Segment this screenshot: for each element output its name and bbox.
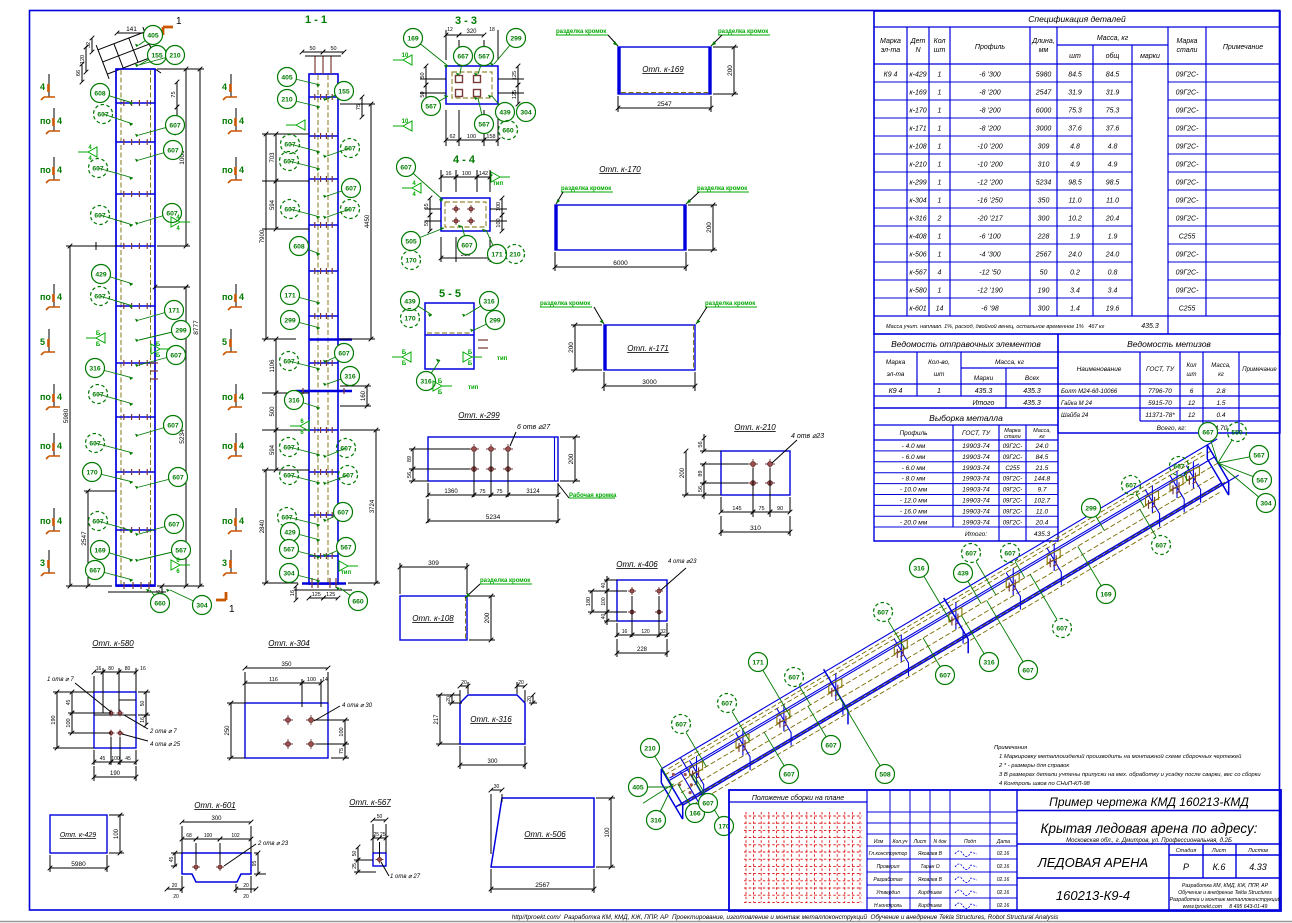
svg-text:Московская обл., г. Дмитров, у: Московская обл., г. Дмитров, ул. Професс… <box>1066 838 1232 844</box>
svg-text:429: 429 <box>284 529 296 536</box>
svg-text:607: 607 <box>675 721 687 728</box>
callout 439 <box>954 564 973 583</box>
svg-text:Выборка металла: Выборка металла <box>929 413 1003 423</box>
callout 405 <box>287 77 320 85</box>
svg-text:3000: 3000 <box>1036 126 1052 133</box>
svg-text:19903-74: 19903-74 <box>962 487 990 494</box>
callout 667 <box>460 56 463 74</box>
svg-text:10: 10 <box>402 53 409 59</box>
svg-text:09Г2С-: 09Г2С- <box>1176 108 1200 115</box>
svg-text:316: 316 <box>650 817 662 824</box>
svg-text:Яковлев В: Яковлев В <box>917 877 943 883</box>
svg-text:567: 567 <box>478 121 490 128</box>
svg-text:2567: 2567 <box>535 882 550 889</box>
svg-text:Масса, кг: Масса, кг <box>1097 35 1129 42</box>
svg-text:Итого: Итого <box>973 400 995 407</box>
svg-text:300: 300 <box>1038 216 1050 223</box>
svg-text:Кирдяшев: Кирдяшев <box>918 890 942 896</box>
svg-text:667: 667 <box>457 53 469 60</box>
svg-text:62: 62 <box>449 134 455 140</box>
svg-text:Шайба 24: Шайба 24 <box>1061 412 1089 419</box>
svg-text:190: 190 <box>51 715 57 724</box>
notes (primechaniya) <box>994 745 1261 787</box>
svg-text:3: 3 <box>40 558 45 568</box>
svg-text:- 6.0 мм: - 6.0 мм <box>902 465 926 472</box>
svg-text:16: 16 <box>290 590 296 596</box>
svg-text:116: 116 <box>269 677 278 683</box>
svg-text:3000: 3000 <box>642 379 657 386</box>
detail k-567 <box>349 798 421 880</box>
callout 607 <box>139 125 175 135</box>
svg-text:608: 608 <box>293 243 305 250</box>
svg-text:84.5: 84.5 <box>1106 72 1120 79</box>
svg-text:607: 607 <box>1125 482 1137 489</box>
svg-text:http//tproekt.com/ Разработка: http//tproekt.com/ Разработка КМ, КМД, К… <box>512 913 1059 921</box>
svg-text:299: 299 <box>175 327 187 334</box>
svg-text:19903-74: 19903-74 <box>962 465 990 472</box>
svg-text:по: по <box>40 165 51 175</box>
svg-text:607: 607 <box>94 293 106 300</box>
callout 567 <box>327 547 346 555</box>
svg-text:607: 607 <box>169 122 181 129</box>
svg-text:12: 12 <box>1188 412 1196 419</box>
svg-text:шт: шт <box>1187 372 1197 378</box>
section 3-3 view <box>393 15 536 146</box>
svg-text:1.9: 1.9 <box>1108 234 1118 241</box>
svg-text:2547: 2547 <box>1035 90 1053 97</box>
svg-text:Профиль: Профиль <box>899 430 928 437</box>
callout 607 <box>287 517 320 525</box>
svg-text:Ведомость метизов: Ведомость метизов <box>1127 339 1211 349</box>
svg-text:228: 228 <box>1037 234 1050 241</box>
svg-text:607: 607 <box>284 206 296 213</box>
svg-text:09Г2С-: 09Г2С- <box>1176 288 1200 295</box>
svg-text:98.5: 98.5 <box>1106 180 1120 187</box>
svg-text:14: 14 <box>322 677 328 683</box>
svg-text:к-580: к-580 <box>909 288 926 295</box>
svg-text:3.4: 3.4 <box>1070 288 1080 295</box>
svg-text:Лист: Лист <box>1211 848 1227 854</box>
svg-text:5980: 5980 <box>63 408 70 423</box>
svg-text:тип: тип <box>468 385 479 391</box>
svg-text:16: 16 <box>445 171 451 177</box>
callout 304 <box>1257 494 1276 513</box>
callout 607 <box>936 666 955 685</box>
svg-text:1: 1 <box>938 162 942 169</box>
svg-text:125: 125 <box>512 90 518 99</box>
svg-text:6000: 6000 <box>613 260 628 267</box>
svg-text:09Г2С-: 09Г2С- <box>1176 144 1200 151</box>
svg-text:304: 304 <box>283 570 295 577</box>
callout 550 <box>1228 423 1247 442</box>
svg-text:Марка: Марка <box>1177 38 1198 45</box>
svg-text:6 отв ⌀27: 6 отв ⌀27 <box>517 424 551 431</box>
callout 607 <box>718 694 737 713</box>
svg-text:Н.контроль: Н.контроль <box>874 903 902 909</box>
svg-text:1.4: 1.4 <box>1070 306 1080 313</box>
callout 667 <box>1170 457 1189 476</box>
callout 607 <box>139 213 172 223</box>
svg-text:210: 210 <box>644 745 656 752</box>
svg-text:200: 200 <box>484 612 491 623</box>
svg-text:Марка: Марка <box>886 359 906 366</box>
svg-text:567: 567 <box>340 544 352 551</box>
section mark 1 top <box>163 27 173 35</box>
svg-text:К9 4: К9 4 <box>884 72 898 79</box>
svg-text:Отп. к-316: Отп. к-316 <box>470 715 512 724</box>
svg-text:20: 20 <box>173 894 179 900</box>
svg-text:3 В размерах детали учтены пр: 3 В размерах детали учтены припуски на м… <box>999 772 1261 778</box>
svg-text:общ: общ <box>1106 52 1120 60</box>
svg-text:4.9: 4.9 <box>1108 162 1118 169</box>
svg-text:4: 4 <box>239 116 244 126</box>
svg-text:-6 ’300: -6 ’300 <box>979 72 1001 79</box>
svg-text:37.6: 37.6 <box>1068 126 1082 133</box>
svg-text:550: 550 <box>1231 429 1243 436</box>
svg-text:142: 142 <box>479 171 488 177</box>
svg-text:50: 50 <box>309 46 315 52</box>
svg-text:по: по <box>40 116 51 126</box>
svg-text:200: 200 <box>727 65 734 76</box>
detail k-171 <box>540 301 757 391</box>
svg-text:607: 607 <box>89 440 101 447</box>
svg-text:160213-К9-4: 160213-К9-4 <box>1056 888 1130 903</box>
svg-text:20.4: 20.4 <box>1035 519 1049 526</box>
svg-text:607: 607 <box>283 158 295 165</box>
svg-text:100: 100 <box>307 677 316 683</box>
svg-text:25: 25 <box>373 832 379 838</box>
svg-text:316: 316 <box>344 373 356 380</box>
svg-text:- 6.0 мм: - 6.0 мм <box>902 454 926 461</box>
svg-text:-16 ’250: -16 ’250 <box>977 198 1002 205</box>
svg-text:304: 304 <box>196 602 208 609</box>
svg-text:4 - 4: 4 - 4 <box>453 154 476 166</box>
detail k-580 <box>47 639 181 781</box>
callout 169 <box>100 550 133 560</box>
dims right of left view <box>176 82 178 107</box>
callout 607 <box>672 715 691 734</box>
svg-text:Б: Б <box>156 353 161 359</box>
callout 170 <box>402 251 421 270</box>
callout 171 <box>139 310 174 320</box>
svg-text:80: 80 <box>108 666 114 672</box>
callout 607 <box>290 209 320 217</box>
svg-text:к-170: к-170 <box>909 108 926 115</box>
svg-text:к-171: к-171 <box>909 126 926 133</box>
detail k-316 <box>434 680 537 769</box>
svg-text:607: 607 <box>94 212 106 219</box>
svg-text:- 10.0 мм: - 10.0 мм <box>900 487 928 494</box>
svg-text:1: 1 <box>229 604 235 615</box>
callout 607 <box>139 355 176 365</box>
callout 607 <box>327 512 343 520</box>
svg-text:09Г2С-: 09Г2С- <box>1176 90 1200 97</box>
svg-text:Примечание: Примечание <box>1242 367 1277 373</box>
svg-text:2567: 2567 <box>1035 252 1053 259</box>
svg-text:Положение сборки на плане: Положение сборки на плане <box>752 794 844 802</box>
svg-text:Отп. к-108: Отп. к-108 <box>412 614 454 623</box>
svg-text:Гл.конструктор: Гл.конструктор <box>869 851 908 857</box>
svg-text:100: 100 <box>496 202 502 211</box>
svg-text:3: 3 <box>222 558 227 568</box>
svg-text:Б: Б <box>468 361 473 367</box>
callout 316 <box>426 360 440 381</box>
svg-text:439: 439 <box>499 109 511 116</box>
callout 169 <box>413 38 448 66</box>
callout 299 <box>494 38 516 64</box>
svg-text:16: 16 <box>140 666 146 672</box>
svg-text:Лист: Лист <box>913 839 927 845</box>
svg-text:594: 594 <box>270 199 276 210</box>
svg-text:Утвердил: Утвердил <box>876 890 900 896</box>
svg-text:299: 299 <box>510 35 522 42</box>
svg-text:Отп. к-170: Отп. к-170 <box>599 165 641 174</box>
svg-text:217: 217 <box>434 714 440 725</box>
svg-text:299: 299 <box>284 317 296 324</box>
callout 608 <box>299 246 320 254</box>
svg-text:02.16: 02.16 <box>997 877 1010 883</box>
svg-text:607: 607 <box>92 518 104 525</box>
svg-text:4: 4 <box>239 165 244 175</box>
svg-text:660: 660 <box>502 127 514 134</box>
svg-text:К9 4: К9 4 <box>889 388 903 395</box>
callout 304 <box>289 573 320 581</box>
svg-text:435.3: 435.3 <box>1023 388 1041 395</box>
svg-text:316: 316 <box>913 565 925 572</box>
callout 607 <box>462 226 467 245</box>
svg-text:по: по <box>222 116 233 126</box>
svg-text:2547: 2547 <box>81 531 88 546</box>
svg-text:- 12.0 мм: - 12.0 мм <box>900 498 928 505</box>
svg-text:Б: Б <box>96 342 101 348</box>
svg-text:40: 40 <box>601 614 607 620</box>
svg-text:7796-70: 7796-70 <box>1148 388 1172 395</box>
svg-text:607: 607 <box>1056 625 1068 632</box>
callout 304 <box>517 103 536 122</box>
svg-text:14: 14 <box>936 306 944 313</box>
svg-text:309: 309 <box>1038 144 1050 151</box>
svg-text:20: 20 <box>243 894 249 900</box>
svg-text:1106: 1106 <box>270 359 276 373</box>
specification table <box>874 11 1280 334</box>
svg-text:4: 4 <box>57 292 62 302</box>
svg-text:6: 6 <box>1190 388 1194 395</box>
svg-text:9.7: 9.7 <box>1037 487 1046 494</box>
callout 660 <box>150 590 160 603</box>
svg-text:180: 180 <box>586 597 592 606</box>
detail k-210 <box>680 423 824 536</box>
svg-text:-10 ’200: -10 ’200 <box>977 144 1002 151</box>
svg-text:02.16: 02.16 <box>997 903 1010 909</box>
svg-text:607: 607 <box>702 800 714 807</box>
svg-text:171: 171 <box>491 251 503 258</box>
svg-text:шт: шт <box>934 371 945 378</box>
svg-text:Отп. к-406: Отп. к-406 <box>616 560 658 569</box>
svg-text:4: 4 <box>938 270 942 277</box>
svg-text:20: 20 <box>527 696 533 702</box>
callout 210 <box>506 245 525 264</box>
callout 667 <box>1199 423 1218 442</box>
hardware (metizy) table <box>1058 334 1280 433</box>
svg-text:141: 141 <box>126 26 137 33</box>
svg-text:120: 120 <box>641 629 650 635</box>
callout 304 <box>170 590 202 605</box>
svg-text:мм: мм <box>1039 47 1049 54</box>
svg-text:158: 158 <box>486 134 495 140</box>
callout 155 <box>139 55 157 65</box>
svg-text:607: 607 <box>461 242 473 249</box>
signature grid <box>867 790 1017 911</box>
svg-text:стали: стали <box>1004 434 1020 440</box>
svg-text:1: 1 <box>938 108 942 115</box>
svg-text:02.16: 02.16 <box>997 890 1010 896</box>
svg-text:607: 607 <box>283 358 295 365</box>
svg-text:508: 508 <box>879 771 891 778</box>
section 4-4 view <box>397 154 525 270</box>
callout 607 <box>327 188 351 196</box>
svg-text:4: 4 <box>57 392 62 402</box>
svg-text:тип: тип <box>493 181 504 187</box>
svg-text:567: 567 <box>478 53 490 60</box>
svg-text:тип: тип <box>497 356 508 362</box>
assembly position plan <box>729 790 867 911</box>
1-1 rungs <box>309 96 338 98</box>
svg-text:84.5: 84.5 <box>1068 72 1082 79</box>
svg-text:Б: Б <box>468 350 473 356</box>
svg-text:09Г2С-: 09Г2С- <box>1003 509 1023 515</box>
svg-text:30: 30 <box>494 784 500 790</box>
svg-text:66: 66 <box>76 70 82 76</box>
svg-text:ГОСТ, ТУ: ГОСТ, ТУ <box>962 430 991 437</box>
svg-text:16: 16 <box>96 666 102 672</box>
svg-text:ЛЕДОВАЯ АРЕНА: ЛЕДОВАЯ АРЕНА <box>1037 855 1148 870</box>
svg-text:75: 75 <box>171 91 177 97</box>
svg-text:80: 80 <box>125 666 131 672</box>
svg-text:Всего, кг:: Всего, кг: <box>1157 425 1187 432</box>
callout 607 <box>327 475 348 483</box>
svg-text:125: 125 <box>326 592 335 598</box>
svg-text:32: 32 <box>660 629 666 635</box>
callout 607 <box>100 215 133 225</box>
svg-text:к-316: к-316 <box>909 216 926 223</box>
svg-text:45: 45 <box>66 700 72 706</box>
callout 429 <box>101 274 133 284</box>
shipping elements table <box>874 334 1058 408</box>
detail k-506 <box>489 784 615 893</box>
svg-text:50: 50 <box>352 851 358 857</box>
svg-text:1: 1 <box>938 180 942 187</box>
svg-text:19903-74: 19903-74 <box>962 443 990 450</box>
svg-text:50: 50 <box>140 701 146 707</box>
callout 210 <box>287 99 320 107</box>
svg-text:435.3: 435.3 <box>1141 323 1159 330</box>
svg-text:607: 607 <box>284 141 296 148</box>
callout 429 <box>290 532 320 540</box>
svg-text:98.5: 98.5 <box>1068 180 1082 187</box>
metal selection table <box>874 408 1058 541</box>
svg-text:4: 4 <box>239 392 244 402</box>
svg-text:- 20.0 мм: - 20.0 мм <box>900 519 928 526</box>
svg-text:607: 607 <box>400 164 412 171</box>
svg-text:155: 155 <box>151 52 163 59</box>
svg-text:12: 12 <box>447 27 453 33</box>
svg-text:1: 1 <box>938 252 942 259</box>
svg-text:607: 607 <box>340 445 352 452</box>
svg-text:Обучение и внедрение Tekla Str: Обучение и внедрение Tekla Structures <box>1178 890 1272 896</box>
svg-text:1: 1 <box>176 16 182 27</box>
svg-text:200: 200 <box>568 342 575 353</box>
svg-text:210: 210 <box>169 52 181 59</box>
svg-text:50: 50 <box>1040 270 1048 277</box>
svg-text:4: 4 <box>239 292 244 302</box>
callout 607 <box>406 167 443 200</box>
title fields <box>1017 790 1281 911</box>
svg-text:607: 607 <box>342 472 354 479</box>
callout 316 <box>910 559 929 578</box>
callout 607 <box>962 544 981 563</box>
svg-text:20: 20 <box>518 680 524 686</box>
svg-text:Кол.уч: Кол.уч <box>893 839 908 845</box>
svg-text:607: 607 <box>825 742 837 749</box>
svg-text:5 - 5: 5 - 5 <box>439 288 461 300</box>
svg-text:16: 16 <box>140 717 146 723</box>
svg-text:20: 20 <box>172 883 178 889</box>
svg-text:- 16.0 мм: - 16.0 мм <box>900 508 928 515</box>
svg-text:607: 607 <box>877 609 889 616</box>
callout 567 <box>1253 471 1272 490</box>
svg-text:5: 5 <box>40 337 45 347</box>
svg-text:660: 660 <box>352 598 364 605</box>
svg-text:-8 ’200: -8 ’200 <box>979 126 1001 133</box>
svg-text:439: 439 <box>404 298 416 305</box>
svg-text:607: 607 <box>783 771 795 778</box>
callout 607 <box>289 447 320 455</box>
svg-text:N док: N док <box>934 839 948 845</box>
svg-text:607: 607 <box>337 509 349 516</box>
svg-text:200: 200 <box>706 222 713 233</box>
svg-text:607: 607 <box>939 672 951 679</box>
callout 567 <box>478 98 484 124</box>
detail k-108 <box>398 560 532 642</box>
callout 607 <box>1152 536 1171 555</box>
svg-text:169: 169 <box>407 35 419 42</box>
svg-text:Б: Б <box>438 379 443 385</box>
svg-text:567: 567 <box>1253 452 1265 459</box>
top bracket (tilted) <box>96 27 156 79</box>
callout 607 <box>139 524 174 534</box>
callout 505 <box>411 228 444 241</box>
svg-text:2 отв ⌀ 23: 2 отв ⌀ 23 <box>257 841 289 847</box>
svg-text:- 4.0 мм: - 4.0 мм <box>902 443 926 450</box>
svg-text:разделка кромок: разделка кромок <box>556 29 606 35</box>
svg-text:56: 56 <box>698 486 704 492</box>
svg-text:190: 190 <box>110 771 121 777</box>
svg-text:11371-78*: 11371-78* <box>1145 412 1175 419</box>
svg-text:316: 316 <box>89 365 101 372</box>
svg-text:4.8: 4.8 <box>1070 144 1080 151</box>
svg-text:594: 594 <box>270 444 276 455</box>
svg-text:144.8: 144.8 <box>1034 476 1051 483</box>
svg-text:02.16: 02.16 <box>997 851 1010 857</box>
svg-text:607: 607 <box>338 350 350 357</box>
callout 439 <box>410 301 432 315</box>
svg-text:3724: 3724 <box>370 499 376 513</box>
svg-text:Дата: Дата <box>996 839 1010 845</box>
svg-text:Яковлев В: Яковлев В <box>917 851 943 857</box>
svg-text:171: 171 <box>284 292 296 299</box>
svg-text:Разработал: Разработал <box>873 877 902 883</box>
svg-text:3 - 3: 3 - 3 <box>455 15 477 27</box>
